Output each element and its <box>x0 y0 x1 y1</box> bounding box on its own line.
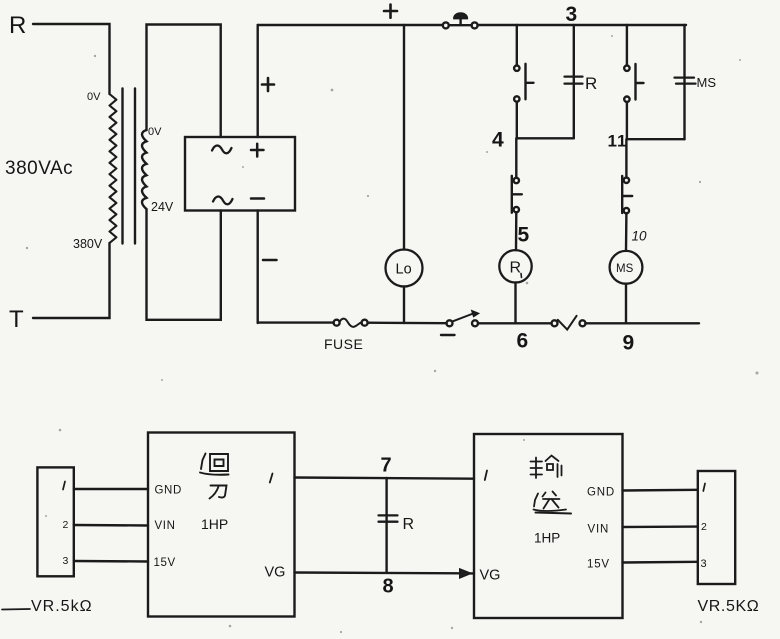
aux contact PB2 (R branch) <box>514 178 519 183</box>
svg-text:GND: GND <box>587 487 615 499</box>
U2 chinese char song (convey) <box>543 492 560 509</box>
start pushbutton PB3 (MS branch) <box>624 66 629 71</box>
wire PB2 to lamp R <box>515 212 518 250</box>
bridge AC symbol bottom <box>213 196 233 204</box>
svg-text:3: 3 <box>63 555 69 567</box>
svg-text:11: 11 <box>608 132 628 151</box>
overload contact OL <box>552 320 558 326</box>
U2 underline stroke <box>536 513 572 514</box>
svg-text:6: 6 <box>517 330 529 353</box>
start pushbutton PB1 (R branch) <box>514 66 519 71</box>
fuse F1 <box>334 320 340 326</box>
U2 chinese char shu (transport) <box>531 458 543 479</box>
wire top bus to contact MS <box>683 25 685 139</box>
wire VR1 pin1 to box GND <box>74 488 148 490</box>
svg-text:380V: 380V <box>73 237 103 251</box>
wire node 7 down to capacitor <box>385 478 387 573</box>
stop pushbutton PB0 mushroom head <box>459 18 461 25</box>
wire node 4 down to aux button <box>515 138 517 178</box>
drive unit box U1 <box>148 433 295 617</box>
svg-text:8: 8 <box>383 576 394 598</box>
svg-text:0V: 0V <box>87 91 101 103</box>
wire U1 VG to U2 VG <box>295 571 462 574</box>
svg-text:15V: 15V <box>587 559 610 571</box>
svg-text:R: R <box>403 516 415 533</box>
svg-text:0V: 0V <box>148 126 162 138</box>
svg-text:3: 3 <box>701 558 707 570</box>
aux contact PB4 (MS branch) <box>624 178 629 183</box>
node 4 wire <box>517 137 574 139</box>
svg-text:Lo: Lo <box>396 262 412 278</box>
bottom bus segment 4 <box>586 322 700 324</box>
lamp MS <box>610 251 643 284</box>
bridge AC symbol top <box>212 145 232 153</box>
svg-text:10: 10 <box>632 229 648 244</box>
svg-text:5: 5 <box>518 224 530 247</box>
label VR.5kΩ left <box>2 608 30 611</box>
svg-text:VR.5KΩ: VR.5KΩ <box>698 598 760 615</box>
transformer T1 primary winding <box>110 94 117 243</box>
svg-text:MS: MS <box>616 263 634 275</box>
bridge plus terminal symbol <box>251 144 264 157</box>
transformer T1 secondary winding <box>142 130 147 209</box>
wire U2 15V to VR2 pin3 <box>623 561 698 564</box>
wire PB1 to node 4 <box>516 102 518 139</box>
lower-left potentiometer VR1 <box>37 467 73 576</box>
bridge minus terminal symbol <box>251 197 264 200</box>
bottom bus segment 3 <box>478 322 552 324</box>
wire U1 pin1 to U2 pin1 (node 7) <box>295 478 475 479</box>
wire node 11 down to aux button <box>625 139 627 177</box>
svg-text:VG: VG <box>480 568 501 584</box>
top bus left segment <box>258 24 443 26</box>
svg-text:VIN: VIN <box>588 524 610 536</box>
svg-text:3: 3 <box>566 3 578 26</box>
svg-text:380VAc: 380VAc <box>5 158 73 179</box>
bottom bus segment 2 <box>368 322 447 325</box>
bridge rectifier BR1 <box>185 137 295 211</box>
svg-text:MS: MS <box>697 75 717 90</box>
svg-text:T: T <box>9 306 24 333</box>
lamp R <box>499 250 531 282</box>
svg-text:2: 2 <box>63 519 69 531</box>
svg-text:VG: VG <box>265 565 286 581</box>
svg-text:15V: 15V <box>154 557 176 569</box>
wire secondary top to bridge AC input 1 <box>147 25 221 138</box>
svg-text:FUSE: FUSE <box>324 336 363 352</box>
label - under knife switch <box>441 334 455 336</box>
wire top bus to lamp Lo <box>403 25 405 250</box>
wire T to transformer primary bottom <box>33 243 110 318</box>
wire VR1 pin2 to box VIN <box>74 524 148 527</box>
wire U2 VIN to VR2 pin2 <box>623 525 698 528</box>
bottom bus segment 1 <box>258 321 334 323</box>
wire top bus to relay contact R <box>573 25 575 138</box>
lamp Lo <box>386 250 423 287</box>
wire U2 GND to VR2 pin1 <box>623 489 698 492</box>
wire PB3 to node 11 <box>626 102 628 139</box>
stop pushbutton PB0 contacts <box>443 22 449 28</box>
svg-text:2: 2 <box>701 521 707 533</box>
label + on DC positive wire <box>262 78 274 91</box>
wire lamp MS to bottom bus node 9 <box>625 284 627 323</box>
transformer T1 core <box>121 89 123 244</box>
wire lamp R to bottom bus node 6 <box>514 283 516 324</box>
label - on DC negative wire <box>263 259 277 262</box>
wire R to transformer primary top <box>33 24 110 94</box>
svg-text:1HP: 1HP <box>534 531 560 546</box>
relay contact R (holding) <box>565 77 583 84</box>
svg-text:R: R <box>585 74 597 93</box>
svg-text:GND: GND <box>155 485 182 497</box>
wire bridge DC+ up to top bus <box>257 25 259 137</box>
top bus right segment <box>478 24 686 26</box>
svg-text:4: 4 <box>492 129 504 152</box>
knife switch S1 <box>447 320 453 326</box>
svg-text:7: 7 <box>381 455 392 477</box>
node 11 wire <box>627 138 685 140</box>
label + on top bus <box>384 5 397 18</box>
relay contact MS (holding) <box>675 78 696 84</box>
U2 pin 1 tick <box>485 471 487 481</box>
drive unit box U2 <box>474 434 623 618</box>
wire top bus to start button PB3 <box>626 25 628 65</box>
svg-text:1HP: 1HP <box>201 516 228 532</box>
svg-text:9: 9 <box>623 332 635 355</box>
wire VR1 pin3 to box 15V <box>74 560 148 563</box>
svg-text:VR.5kΩ: VR.5kΩ <box>31 598 93 615</box>
wire top bus to start button PB1 <box>516 25 518 65</box>
svg-text:24V: 24V <box>151 200 174 214</box>
U1 pin 1 tick <box>270 474 273 483</box>
wire PB4 to lamp MS <box>625 213 628 251</box>
U1 chinese char dao (knife) <box>210 486 227 499</box>
svg-text:VIN: VIN <box>155 520 176 532</box>
capacitor C1 (R) <box>379 515 398 521</box>
U1 chinese char hui (rotary) <box>210 454 228 471</box>
svg-text:R: R <box>9 12 26 39</box>
wire secondary bottom to bridge AC input 2 <box>147 209 221 320</box>
wire bridge DC- down to bottom bus <box>257 211 259 324</box>
wire lamp Lo to bottom bus <box>403 287 405 324</box>
lower-right potentiometer VR2 <box>698 471 735 584</box>
svg-text:R: R <box>510 260 522 277</box>
arrowhead into U2 VG <box>460 569 472 579</box>
